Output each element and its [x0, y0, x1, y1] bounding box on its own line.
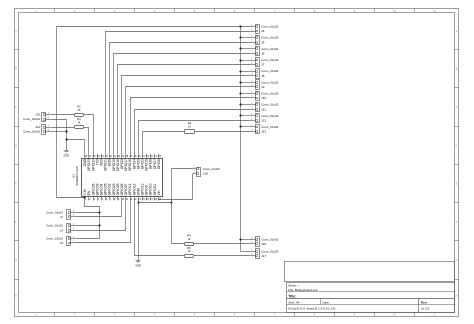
svg-text:D: D	[15, 144, 17, 147]
svg-text:1K: 1K	[188, 125, 191, 128]
wire GPIO loop U1 pin to J11 pin2	[135, 110, 250, 154]
svg-text:Conn_01x02: Conn_01x02	[261, 237, 278, 241]
svg-text:Conn_01x02: Conn_01x02	[261, 25, 278, 29]
junction at U1 3.3V pin stub	[83, 196, 85, 198]
wire bus end to J17 pin1	[241, 251, 250, 253]
wire R1 to J13 pin2	[195, 131, 250, 133]
svg-text:Conn_01x02: Conn_01x02	[261, 69, 278, 73]
resistor R4	[185, 234, 194, 246]
wire tap to J7 pin1	[241, 60, 250, 62]
svg-text:J6: J6	[261, 52, 265, 56]
wire J3 pin1 to U1 pin GPIO14	[77, 201, 131, 243]
wire U1 GND pin down	[138, 201, 140, 261]
wire 3V3 feed from U1 pin 3.3V around left to bus top	[57, 27, 250, 198]
wire R2 to U1 pin GPIO22	[84, 115, 94, 154]
wire GPIO loop U1 pin to J9 pin2	[126, 87, 250, 154]
IC U1 NodeMCU-32S	[71, 154, 162, 201]
svg-text:Vin: Vin	[157, 191, 161, 196]
ground GND left	[64, 151, 70, 158]
resistor R1	[185, 121, 195, 134]
wire R5 to J17 pin2	[194, 255, 250, 257]
svg-text:1K: 1K	[77, 121, 80, 124]
connector J16	[250, 237, 279, 247]
svg-text:J1: J1	[60, 215, 64, 219]
svg-text:J10: J10	[261, 96, 266, 100]
junction bus at J9 pin1	[239, 81, 241, 83]
svg-text:J3: J3	[60, 241, 64, 245]
svg-text:Conn_01x02: Conn_01x02	[46, 224, 63, 228]
wire tap J1 pin2	[77, 212, 100, 214]
connector J11	[250, 103, 279, 112]
connector J12	[250, 114, 279, 123]
svg-text:J12: J12	[261, 118, 266, 122]
svg-text:C: C	[15, 106, 17, 109]
svg-text:Conn_01x02: Conn_01x02	[46, 237, 63, 241]
svg-text:J16: J16	[261, 242, 266, 246]
svg-text:J7: J7	[261, 63, 265, 67]
svg-text:Id: 1/1: Id: 1/1	[421, 307, 430, 311]
svg-text:Rev:: Rev:	[421, 300, 428, 304]
wire 3V3 vertical bus	[240, 27, 242, 252]
junction bus at J6 pin1	[239, 47, 241, 49]
svg-text:Conn_01x02: Conn_01x02	[261, 80, 278, 84]
wire tap to J13 pin1	[241, 126, 250, 128]
svg-text:Date:: Date:	[323, 300, 330, 304]
resistor R2	[75, 105, 84, 117]
wire GPIO loop U1 pin to J13 pin2	[143, 132, 185, 154]
junction bus at J5 pin1	[239, 36, 241, 38]
wire J14 pin2 join	[52, 131, 67, 133]
connector J18	[193, 167, 221, 177]
svg-text:GND: GND	[135, 263, 141, 267]
svg-text:Title:: Title:	[288, 294, 296, 298]
connector J6	[250, 47, 279, 56]
junction bus at J7 pin1	[239, 59, 241, 61]
junction at J2 pin2	[98, 224, 100, 226]
wire GND down to R4	[172, 203, 185, 244]
wire GPIO loop U1 pin to J12 pin2	[139, 121, 250, 154]
svg-text:GND: GND	[64, 154, 70, 158]
connector J1	[46, 210, 77, 220]
svg-text:Conn_01x02: Conn_01x02	[261, 92, 278, 96]
wire tap to J12 pin1	[241, 115, 250, 117]
wire J18 pin2 to GND	[172, 169, 193, 203]
wire tap to J8 pin1	[241, 71, 250, 73]
wire GPIO loop U1 pin to J10 pin2	[131, 98, 250, 154]
connector J15	[23, 113, 52, 122]
connector J10	[250, 92, 279, 101]
junction bus at J4 pin1	[239, 25, 241, 27]
svg-text:J14: J14	[35, 125, 40, 129]
connector J7	[250, 58, 279, 67]
svg-text:J8: J8	[261, 74, 265, 78]
svg-text:Size: A4: Size: A4	[288, 300, 299, 304]
svg-text:J15: J15	[35, 113, 40, 117]
svg-text:NodeMCU-32S: NodeMCU-32S	[75, 166, 79, 186]
wire GPIO loop U1 pin to J7 pin2	[118, 65, 250, 154]
connector J8	[250, 69, 279, 79]
connector J2	[46, 224, 77, 233]
svg-text:Conn_01x02: Conn_01x02	[261, 114, 278, 118]
junction bus at J13 pin1	[239, 125, 241, 127]
wire tap J2 pin2	[77, 225, 100, 227]
wire GPIO loop U1 pin to J5 pin2	[110, 43, 250, 154]
wire J14 pin1 to R3	[52, 127, 75, 129]
connector J4	[250, 25, 279, 34]
svg-text:J9: J9	[261, 85, 265, 89]
wire J2 pin1 to U1 pin GPIO27	[77, 201, 126, 231]
connector J3	[46, 237, 77, 246]
junction bus at J11 pin1	[239, 103, 241, 105]
svg-text:G: G	[456, 259, 458, 262]
svg-text:J17: J17	[261, 254, 266, 258]
wire R4 to J16 pin2	[194, 243, 250, 245]
ground GND bottom	[135, 261, 141, 268]
svg-text:H: H	[456, 295, 458, 298]
svg-text:Conn_01x02: Conn_01x02	[261, 47, 278, 51]
svg-text:D: D	[456, 144, 458, 147]
junction GND bottom	[137, 201, 139, 203]
wire J15 pin1 to R2	[52, 114, 75, 116]
wire GPIO loop U1 pin to J6 pin2	[114, 54, 250, 154]
wire tap to J16 pin1	[241, 239, 250, 241]
junction bus at J10 pin1	[239, 92, 241, 94]
wire tap to J6 pin1	[241, 48, 250, 50]
connector J14	[23, 125, 52, 135]
junction GND vertical at J14 pin2	[65, 130, 67, 132]
svg-text:Conn_01x02: Conn_01x02	[23, 130, 40, 134]
junction GND at x171	[170, 201, 172, 203]
svg-text:GPIO6: GPIO6	[157, 159, 161, 169]
junction bus at J8 pin1	[239, 70, 241, 72]
svg-text:Conn_01x02: Conn_01x02	[261, 58, 278, 62]
svg-text:1K: 1K	[77, 109, 80, 112]
svg-text:J13: J13	[261, 130, 266, 134]
wire tap to J5 pin1	[241, 37, 250, 39]
wire tap to J10 pin1	[241, 93, 250, 95]
wire R3 to U1 pin GPIO23	[84, 128, 89, 154]
svg-text:H: H	[15, 295, 17, 298]
resistor R5	[185, 246, 194, 258]
svg-text:J5: J5	[261, 40, 265, 44]
svg-text:1K: 1K	[187, 250, 190, 253]
junction bus at J16 pin1	[239, 238, 241, 240]
svg-text:Conn_01x02: Conn_01x02	[261, 125, 278, 129]
svg-text:Conn_01x02: Conn_01x02	[23, 117, 40, 121]
resistor R3	[75, 117, 84, 129]
wire tap to J9 pin1	[241, 82, 250, 84]
svg-text:File: 8bitkeyboard.sch: File: 8bitkeyboard.sch	[288, 288, 318, 292]
wire GND branch to U1 pin GND top	[67, 140, 85, 154]
wire tap to J11 pin1	[241, 104, 250, 106]
svg-text:KiCad E.D.A. kicad (5.1.9-0-1: KiCad E.D.A. kicad (5.1.9-0-10_14)	[288, 307, 335, 311]
svg-text:J2: J2	[60, 228, 64, 232]
svg-text:Conn_01x02: Conn_01x02	[261, 249, 278, 253]
wire GPIO loop U1 pin to J4 pin2	[106, 32, 250, 154]
wire J15 pin2 to GND vertical	[52, 120, 67, 151]
svg-text:C: C	[456, 106, 458, 109]
svg-text:J11: J11	[261, 107, 266, 111]
svg-text:Conn_01x02: Conn_01x02	[203, 167, 220, 171]
wire tap J3 pin2	[77, 238, 100, 240]
svg-text:J4: J4	[261, 29, 265, 33]
wire GPIO loop U1 pin to J8 pin2	[122, 76, 250, 154]
connector J13	[250, 125, 279, 134]
svg-text:1K: 1K	[187, 238, 190, 241]
svg-text:Conn_01x02: Conn_01x02	[261, 103, 278, 107]
junction GND vertical branch	[65, 138, 67, 140]
wire J18 pin1 to U1 pin Vin	[159, 174, 193, 201]
wire U1 3.3V pin down to J1-J3 bus	[85, 201, 100, 239]
connector J9	[250, 80, 279, 90]
svg-text:Conn_01x02: Conn_01x02	[46, 210, 63, 214]
wire J1 pin1 to U1 pin GPIO26	[77, 201, 122, 217]
wire GND to J18/R4 vertical	[139, 202, 172, 204]
connector J17	[250, 249, 279, 259]
wire U1 pin GPIO12 to R5	[135, 201, 185, 256]
svg-text:G: G	[15, 259, 17, 262]
junction bus at J12 pin1	[239, 114, 241, 116]
connector J5	[250, 36, 279, 45]
junction at J1 pin2	[98, 211, 100, 213]
svg-text:J18: J18	[203, 172, 208, 176]
svg-text:Conn_01x02: Conn_01x02	[261, 36, 278, 40]
